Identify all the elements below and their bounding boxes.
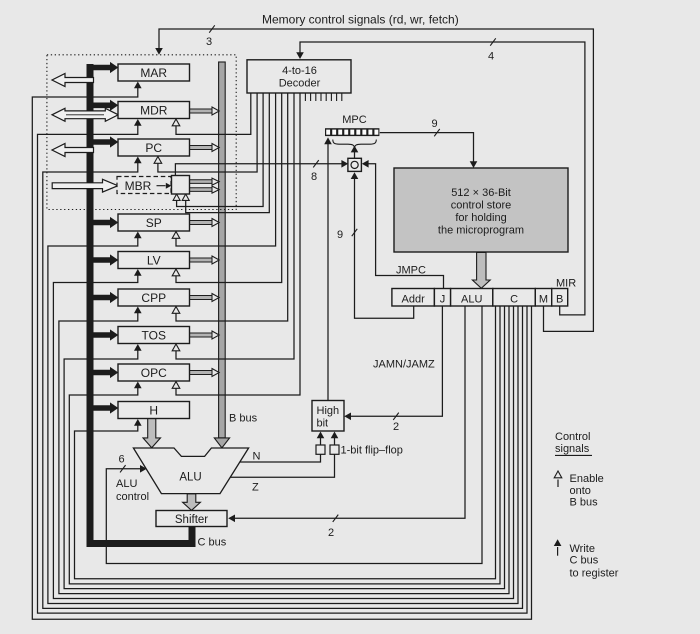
svg-text:3: 3 bbox=[206, 36, 212, 48]
filled arrowhead write SP bbox=[134, 232, 142, 239]
wire: MIR C field write-enable to MDR (wraps around bottom) bbox=[38, 125, 528, 613]
Shifter bbox=[156, 511, 227, 527]
arrowhead into MPC bottom bbox=[324, 137, 332, 144]
wire: O mux output up into MPC bbox=[354, 152, 356, 159]
register TOS bbox=[118, 327, 190, 344]
wire: MIR C field write-enable to TOS (wraps around bottom) bbox=[64, 306, 504, 589]
brace under MPC bbox=[333, 140, 377, 149]
slash 9 mpc bbox=[434, 129, 440, 136]
svg-text:Control: Control bbox=[555, 431, 590, 443]
C bus thick write arrow into MDR bbox=[94, 100, 119, 111]
svg-text:N: N bbox=[253, 451, 261, 463]
slash 2 shifter bbox=[333, 515, 339, 522]
wire: MIR C field write-enable to LV (wraps around bottom) bbox=[53, 275, 513, 599]
svg-text:Z: Z bbox=[252, 482, 259, 494]
MIR field Addr bbox=[392, 289, 435, 307]
slash 9 addr bbox=[352, 229, 358, 236]
wire: ALU N output to flip-flop bbox=[240, 454, 321, 462]
MDR output arrow onto B bus bbox=[190, 109, 213, 113]
wire: decoder enable output to OPC bbox=[176, 93, 300, 395]
memory address arrow out of MAR row bbox=[52, 74, 94, 87]
open arrowhead enable MBRU bbox=[182, 194, 189, 200]
OPC output arrow onto B bus bbox=[190, 371, 213, 375]
wire: decoder enable output to MDR bbox=[176, 93, 251, 134]
control store bbox=[394, 168, 568, 252]
svg-text:9: 9 bbox=[432, 118, 438, 130]
wire: memory control signals from MIR M field (3-bit) bbox=[159, 29, 593, 331]
arrowhead into control store bbox=[470, 161, 478, 168]
wire: Z flip-flop to High bit bbox=[334, 438, 336, 445]
open arrowhead enable CPP bbox=[172, 307, 180, 314]
wire: High bit output to MPC top bit bbox=[327, 144, 329, 401]
register H bbox=[118, 402, 190, 419]
svg-text:JMPC: JMPC bbox=[396, 265, 426, 277]
open arrowhead enable MDR bbox=[172, 119, 180, 126]
svg-text:Addr: Addr bbox=[402, 294, 426, 306]
memory data double arrow MDR row bbox=[52, 108, 118, 121]
svg-text:OPC: OPC bbox=[141, 366, 167, 380]
SP output arrow onto B bus bbox=[190, 221, 213, 225]
svg-text:CPP: CPP bbox=[141, 291, 166, 305]
C bus thick write arrow into LV bbox=[94, 254, 119, 265]
slash 8 bbox=[313, 160, 319, 167]
filled arrowhead write MDR bbox=[134, 119, 142, 126]
wire: decoder enable output to TOS bbox=[176, 93, 294, 359]
filled arrowhead write PC bbox=[134, 157, 142, 164]
CPP output arrow onto B bus bbox=[190, 296, 213, 300]
MIR field ALU bbox=[451, 289, 493, 307]
memory address arrow out of PC row bbox=[52, 144, 94, 157]
svg-text:B bus: B bus bbox=[229, 413, 258, 425]
C bus thick write arrow into PC bbox=[94, 136, 119, 147]
svg-text:M: M bbox=[539, 294, 548, 306]
MIR field C bbox=[493, 289, 536, 307]
svg-text:MPC: MPC bbox=[342, 114, 367, 126]
wire: MIR C field write-enable to PC (wraps around bottom) bbox=[43, 162, 523, 608]
filled arrowhead write H bbox=[134, 419, 142, 426]
svg-text:signals: signals bbox=[555, 443, 590, 455]
svg-text:for holding: for holding bbox=[455, 212, 506, 224]
svg-text:control store: control store bbox=[451, 200, 512, 212]
C bus thick write arrow into TOS bbox=[94, 329, 119, 340]
B bus vertical bar bbox=[219, 62, 226, 438]
open arrowhead enable TOS bbox=[172, 344, 180, 351]
4-to-16 decoder bbox=[247, 60, 351, 93]
MBR unsigned output arrow onto B bus bbox=[190, 188, 213, 192]
svg-text:512 × 36-Bit: 512 × 36-Bit bbox=[451, 187, 511, 199]
MBR output arrow onto B bus bbox=[190, 180, 213, 184]
svg-text:PC: PC bbox=[145, 141, 162, 155]
ALU output block arrow into Shifter bbox=[183, 494, 201, 511]
register MAR bbox=[118, 64, 190, 81]
wire: ALU control from MIR ALU field (6-bit, wraps bottom) bbox=[106, 306, 482, 564]
filled arrowhead write LV bbox=[134, 269, 142, 276]
open arrowhead enable LV bbox=[172, 269, 180, 276]
MIR field B bbox=[552, 289, 568, 307]
arrowhead into High bit right bbox=[344, 413, 351, 421]
arrowhead into O right bbox=[362, 160, 369, 168]
wire: JAMN/JAMZ from MIR J field to High bit box (2-bit) bbox=[351, 306, 443, 416]
arrowhead into ALU left edge bbox=[140, 465, 147, 473]
wire: MIR C field write-enable to MAR (wraps around bottom) bbox=[32, 87, 531, 619]
svg-text:the microprogram: the microprogram bbox=[438, 225, 524, 237]
C bus thick vertical bar bbox=[87, 64, 94, 547]
svg-text:MBR: MBR bbox=[125, 179, 152, 193]
MIR field J bbox=[434, 289, 450, 307]
wire: MPC output to control store (9-bit) bbox=[380, 133, 474, 162]
svg-text:4-to-16: 4-to-16 bbox=[282, 65, 317, 77]
svg-text:SP: SP bbox=[146, 216, 162, 230]
PC output arrow onto B bus bbox=[190, 146, 213, 150]
svg-text:Memory control signals (rd, wr: Memory control signals (rd, wr, fetch) bbox=[262, 13, 459, 27]
wire: shifter control from MIR ALU field (2-bit) bbox=[235, 306, 466, 518]
legend enable arrow bbox=[557, 480, 559, 488]
MIR field M bbox=[535, 289, 551, 307]
C bus thick bottom horizontal bbox=[87, 540, 196, 547]
TOS output arrow onto B bus bbox=[190, 333, 213, 337]
register CPP bbox=[118, 289, 190, 306]
svg-text:LV: LV bbox=[147, 254, 161, 268]
svg-text:Write: Write bbox=[570, 543, 595, 555]
svg-text:Shifter: Shifter bbox=[175, 514, 208, 526]
wire: decoder enable output to CPP bbox=[176, 93, 288, 321]
C bus thick write arrow into MAR bbox=[94, 62, 119, 73]
ALU bbox=[133, 448, 248, 494]
Z flip-flop bbox=[330, 445, 339, 454]
register LV bbox=[118, 252, 190, 269]
C bus thick write arrow into H bbox=[94, 402, 119, 413]
svg-text:2: 2 bbox=[393, 421, 399, 433]
register MBR (dashed) bbox=[117, 177, 171, 194]
filled arrowhead write CPP bbox=[134, 307, 142, 314]
svg-text:C bus: C bus bbox=[198, 537, 227, 549]
svg-text:ALU: ALU bbox=[116, 478, 137, 490]
register MPC (hatched) bbox=[325, 128, 379, 136]
wire: decoder enable output to MBR bbox=[177, 93, 264, 207]
svg-text:onto: onto bbox=[570, 485, 591, 497]
arrowhead into O left bbox=[341, 160, 348, 168]
arrowhead into decoder bbox=[296, 52, 304, 59]
arrowhead into O bottom bbox=[351, 172, 359, 179]
slash 3 bbox=[209, 25, 215, 32]
svg-text:B: B bbox=[556, 294, 563, 306]
wire: MIR B field to 4-to-16 decoder (4-bit) bbox=[300, 42, 585, 315]
svg-text:1-bit flip–flop: 1-bit flip–flop bbox=[341, 445, 403, 457]
open arrowhead enable OPC bbox=[172, 382, 180, 389]
svg-text:H: H bbox=[149, 404, 158, 418]
dotted memory interface box bbox=[47, 55, 236, 210]
LV output arrow onto B bus bbox=[190, 258, 213, 262]
legend write arrow bbox=[557, 547, 559, 556]
svg-text:6: 6 bbox=[119, 454, 125, 466]
wire: ALU Z output to flip-flop bbox=[230, 454, 334, 477]
arrowhead into dotted box bbox=[155, 48, 163, 55]
MBR latch box bbox=[172, 176, 190, 195]
svg-text:MAR: MAR bbox=[140, 66, 167, 80]
svg-text:JAMN/JAMZ: JAMN/JAMZ bbox=[373, 359, 435, 371]
wire: decoder enable output to LV bbox=[176, 93, 282, 283]
N flip-flop bbox=[316, 445, 325, 454]
wire: decoder enable output to MBR unsigned bbox=[186, 93, 270, 213]
arrowhead into Shifter right bbox=[228, 515, 235, 523]
svg-text:8: 8 bbox=[311, 171, 317, 183]
slash 6 bbox=[120, 465, 126, 472]
svg-text:9: 9 bbox=[337, 229, 343, 241]
svg-text:Decoder: Decoder bbox=[279, 78, 321, 90]
wire: MIR C field write-enable to OPC (wraps around bottom) bbox=[69, 306, 500, 584]
slash 4 bbox=[490, 38, 496, 45]
wire: decoder enable output to SP bbox=[176, 93, 276, 246]
filled arrowhead write MAR bbox=[134, 82, 142, 89]
H register output block arrow into ALU bbox=[143, 418, 161, 448]
wire: N flip-flop to High bit bbox=[320, 438, 322, 445]
svg-text:High: High bbox=[317, 405, 340, 417]
register MDR bbox=[118, 102, 190, 119]
svg-text:ALU: ALU bbox=[179, 472, 201, 484]
slash 2 jam bbox=[393, 413, 399, 420]
wire: MIR Addr field to O mux (9-bit) bbox=[355, 179, 414, 319]
wire: MIR C field write-enable to H (wraps around bottom) bbox=[75, 306, 496, 579]
open arrowhead enable MBR bbox=[173, 194, 180, 200]
open arrowhead enable PC bbox=[154, 157, 162, 164]
register SP bbox=[118, 214, 190, 231]
wire: MIR C field write-enable to CPP (wraps around bottom) bbox=[59, 306, 509, 594]
svg-text:B bus: B bus bbox=[570, 497, 599, 509]
register OPC bbox=[118, 364, 190, 381]
MBR internal arrow bbox=[157, 185, 166, 187]
control store output block arrow into MIR bbox=[472, 253, 490, 289]
svg-text:ALU: ALU bbox=[461, 294, 482, 306]
svg-text:MDR: MDR bbox=[140, 104, 168, 118]
svg-text:bit: bit bbox=[317, 418, 329, 430]
svg-text:TOS: TOS bbox=[142, 329, 166, 343]
wire: MIR C field write-enable to SP (wraps around bottom) bbox=[48, 237, 518, 603]
C bus thick write arrow into SP bbox=[94, 217, 119, 228]
High bit box bbox=[312, 401, 344, 432]
svg-text:C: C bbox=[510, 294, 518, 306]
B bus block arrowhead into ALU bbox=[214, 438, 229, 448]
filled arrowhead write OPC bbox=[134, 382, 142, 389]
mux O box bbox=[348, 158, 362, 171]
svg-text:J: J bbox=[440, 294, 446, 306]
decoder unused output stubs bbox=[305, 93, 341, 101]
svg-text:to register: to register bbox=[570, 568, 619, 580]
C bus thick write arrow into CPP bbox=[94, 292, 119, 303]
C bus thick riser from Shifter bbox=[189, 527, 196, 548]
wire: decoder enable output to PC bbox=[158, 93, 257, 172]
wire: MBR 8-bit output to MPC mux O bbox=[175, 164, 341, 176]
C bus thick write arrow into OPC bbox=[94, 367, 119, 378]
svg-text:control: control bbox=[116, 491, 149, 503]
svg-text:Enable: Enable bbox=[570, 473, 604, 485]
svg-text:C bus: C bus bbox=[570, 555, 599, 567]
filled arrowhead write TOS bbox=[134, 344, 142, 351]
wire: JMPC from MIR J field to O mux bbox=[368, 164, 443, 289]
open arrowhead enable SP bbox=[172, 232, 180, 239]
register PC bbox=[118, 139, 190, 156]
svg-text:MIR: MIR bbox=[556, 278, 576, 290]
svg-text:2: 2 bbox=[328, 527, 334, 539]
svg-text:4: 4 bbox=[488, 51, 494, 63]
memory fetch arrow into MBR bbox=[52, 179, 118, 192]
